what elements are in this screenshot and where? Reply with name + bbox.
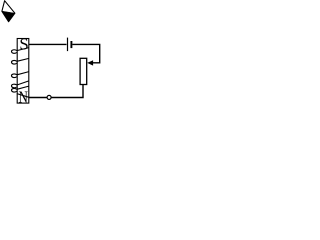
svg-text:N: N [19, 87, 28, 106]
svg-text:S: S [19, 35, 28, 54]
